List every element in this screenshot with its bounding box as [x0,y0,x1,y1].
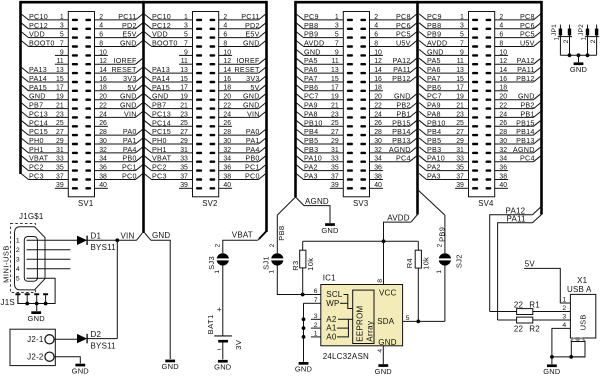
svg-text:AGND: AGND [513,145,535,154]
svg-text:PC10: PC10 [29,12,48,21]
svg-text:PC1: PC1 [245,163,260,172]
svg-text:WP: WP [326,299,339,308]
svg-text:SV4: SV4 [478,199,494,208]
svg-text:PB4: PB4 [427,127,441,136]
svg-text:PC12: PC12 [29,21,48,30]
svg-text:PC9: PC9 [427,12,442,21]
svg-text:PA6: PA6 [427,65,441,74]
svg-text:Array: Array [365,321,374,342]
svg-text:SV1: SV1 [78,199,93,208]
svg-text:PB3: PB3 [427,145,441,154]
svg-text:VIN: VIN [124,109,137,118]
svg-text:GND: GND [120,101,137,110]
svg-text:E5V: E5V [245,30,259,39]
svg-text:GND: GND [295,365,313,374]
svg-text:PC3: PC3 [152,172,167,181]
svg-text:PB6: PB6 [427,83,441,92]
svg-text:PB13: PB13 [516,136,535,145]
svg-text:PC0: PC0 [122,172,137,181]
svg-text:PA4: PA4 [123,145,137,154]
svg-text:PA8: PA8 [427,109,441,118]
svg-text:24LC32ASN: 24LC32ASN [323,352,369,361]
svg-text:2: 2 [314,322,318,329]
svg-text:5V: 5V [127,83,136,92]
svg-text:SCL: SCL [326,290,343,299]
svg-text:EEPROM: EEPROM [356,305,365,341]
svg-text:PA6: PA6 [304,65,318,74]
svg-text:GND: GND [243,39,260,48]
svg-text:PC6: PC6 [396,21,411,30]
svg-text:PC5: PC5 [520,30,535,39]
svg-text:PA2: PA2 [304,163,318,172]
svg-text:PB9: PB9 [304,30,318,39]
svg-text:E5V: E5V [122,30,136,39]
svg-text:PB1: PB1 [396,109,410,118]
svg-text:10k: 10k [306,258,315,271]
svg-text:PA12: PA12 [393,56,411,65]
svg-text:PC8: PC8 [396,12,411,21]
svg-text:PA5: PA5 [304,56,318,65]
svg-text:PC5: PC5 [396,30,411,39]
svg-text:3V3: 3V3 [246,74,260,83]
svg-text:PD2: PD2 [122,21,137,30]
svg-text:PB14: PB14 [516,127,535,136]
svg-text:PC1: PC1 [122,163,137,172]
svg-text:PA2: PA2 [427,163,441,172]
svg-text:PA0: PA0 [123,127,137,136]
svg-text:PB0: PB0 [245,154,259,163]
svg-text:+: + [217,305,222,314]
svg-text:BAT1: BAT1 [206,314,215,334]
svg-text:GND: GND [152,92,169,101]
svg-text:AGND: AGND [305,197,329,206]
svg-text:AGND: AGND [389,145,411,154]
svg-text:PC15: PC15 [29,127,48,136]
svg-text:VCC: VCC [379,289,397,298]
svg-text:PC0: PC0 [245,172,260,181]
svg-text:PB6: PB6 [304,83,318,92]
svg-text:3V: 3V [234,340,243,350]
svg-text:1: 1 [314,331,318,338]
svg-text:2: 2 [590,39,597,43]
svg-text:PA10: PA10 [427,154,445,163]
svg-text:PC6: PC6 [520,21,535,30]
svg-text:VBAT: VBAT [232,231,253,240]
svg-text:PB7: PB7 [152,101,166,110]
svg-text:GND: GND [375,367,393,376]
svg-text:2: 2 [16,247,20,254]
svg-text:PA3: PA3 [304,172,318,181]
svg-text:R4: R4 [405,258,414,268]
svg-text:GND: GND [120,39,137,48]
svg-text:PB2: PB2 [396,101,410,110]
svg-text:PD2: PD2 [245,21,260,30]
svg-text:GND: GND [543,367,561,376]
svg-text:PA11: PA11 [507,214,527,223]
svg-text:PB8: PB8 [427,21,441,30]
svg-text:22: 22 [514,300,524,309]
svg-text:8: 8 [377,279,384,283]
svg-text:1: 1 [16,238,20,245]
svg-text:BOOT0: BOOT0 [152,39,178,48]
svg-text:PB3: PB3 [304,145,318,154]
svg-text:D1: D1 [91,232,102,241]
svg-text:1: 1 [436,270,443,274]
svg-text:PA1: PA1 [123,136,137,145]
svg-text:D2: D2 [91,330,102,339]
svg-text:GND: GND [214,363,232,372]
svg-text:4: 4 [16,266,20,273]
svg-text:3: 3 [314,313,318,320]
svg-text:JP1: JP1 [551,24,558,36]
svg-text:GND: GND [72,366,90,375]
svg-text:SV2: SV2 [202,199,217,208]
svg-text:PC3: PC3 [29,172,44,181]
svg-text:R1: R1 [529,300,540,309]
svg-text:PB15: PB15 [516,118,535,127]
svg-text:IC1: IC1 [323,274,336,283]
svg-text:U5V: U5V [396,39,411,48]
svg-text:PB2: PB2 [520,101,534,110]
svg-text:2: 2 [437,243,444,247]
svg-text:PC4: PC4 [520,154,535,163]
svg-text:PC15: PC15 [152,127,171,136]
svg-text:5V: 5V [250,83,259,92]
svg-text:6: 6 [314,288,318,295]
svg-text:PB13: PB13 [392,136,411,145]
svg-text:PA1: PA1 [246,136,260,145]
svg-text:PB0: PB0 [122,154,136,163]
svg-text:IOREF: IOREF [236,56,260,65]
svg-text:R3: R3 [291,261,300,271]
svg-text:5: 5 [16,276,20,283]
svg-text:PA15: PA15 [29,83,47,92]
svg-text:3V3: 3V3 [123,74,137,83]
svg-text:PA4: PA4 [246,145,260,154]
svg-text:AVDD: AVDD [304,39,324,48]
svg-text:PB9: PB9 [437,227,446,242]
svg-text:PB7: PB7 [29,101,43,110]
svg-text:AVDD: AVDD [387,214,409,223]
svg-text:PH1: PH1 [152,145,167,154]
svg-text:GND: GND [162,362,180,371]
svg-text:RESET: RESET [234,65,260,74]
svg-text:PA9: PA9 [304,101,318,110]
svg-text:−: − [217,345,222,354]
svg-text:PA15: PA15 [152,83,170,92]
svg-text:PB9: PB9 [427,30,441,39]
svg-text:PA13: PA13 [29,65,47,74]
svg-text:GND: GND [570,65,588,74]
svg-text:PC2: PC2 [29,163,44,172]
svg-text:U5V: U5V [520,39,535,48]
svg-text:BOOT0: BOOT0 [29,39,55,48]
svg-text:PC11: PC11 [241,12,259,21]
svg-text:PC11: PC11 [118,12,136,21]
svg-text:PH0: PH0 [152,136,167,145]
svg-text:2: 2 [563,39,570,43]
svg-text:VDD: VDD [29,30,45,39]
svg-text:PA13: PA13 [152,65,170,74]
svg-text:X1: X1 [577,276,588,285]
svg-text:PB15: PB15 [392,118,411,127]
svg-text:5V: 5V [525,259,536,268]
svg-text:GND: GND [152,231,170,240]
svg-text:GND: GND [518,92,535,101]
svg-text:PB10: PB10 [304,118,323,127]
svg-text:A1: A1 [326,324,337,333]
svg-text:PC2: PC2 [152,163,167,172]
svg-text:RESET: RESET [111,65,137,74]
svg-text:PC12: PC12 [152,21,171,30]
svg-text:PB1: PB1 [520,109,534,118]
svg-text:PA5: PA5 [427,56,441,65]
svg-text:BYS11: BYS11 [91,341,117,350]
svg-text:PB12: PB12 [392,74,411,83]
svg-text:PB5: PB5 [304,136,318,145]
svg-text:GND: GND [29,92,46,101]
svg-text:PB10: PB10 [427,118,446,127]
svg-text:PA3: PA3 [427,172,441,181]
svg-text:2: 2 [215,243,222,247]
svg-text:PH0: PH0 [29,136,44,145]
svg-text:SJ2: SJ2 [455,254,464,268]
svg-text:SDA: SDA [377,317,395,326]
svg-text:PC10: PC10 [152,12,171,21]
svg-text:PA11: PA11 [393,65,411,74]
svg-text:PA10: PA10 [304,154,322,163]
svg-text:PA7: PA7 [427,74,441,83]
svg-text:4: 4 [377,349,384,353]
svg-text:GND: GND [243,92,260,101]
svg-text:IOREF: IOREF [113,56,137,65]
svg-text:PA0: PA0 [246,127,260,136]
svg-text:USB A: USB A [567,285,592,294]
svg-text:PC13: PC13 [152,109,171,118]
svg-text:MINI-USB: MINI-USB [2,245,11,283]
svg-text:PA7: PA7 [304,74,318,83]
svg-text:PB14: PB14 [392,127,411,136]
svg-text:USB: USB [579,315,588,331]
svg-text:GND: GND [427,47,444,56]
svg-text:PB12: PB12 [516,74,535,83]
svg-text:PC14: PC14 [152,118,171,127]
svg-text:J2-2: J2-2 [27,352,44,361]
svg-text:JP2: JP2 [578,24,585,36]
svg-text:PB8: PB8 [304,21,318,30]
svg-text:PB5: PB5 [427,136,441,145]
svg-text:VIN: VIN [121,231,135,240]
svg-text:3: 3 [16,257,20,264]
svg-text:GND: GND [378,338,396,347]
svg-text:VIN: VIN [247,109,260,118]
svg-text:PA12: PA12 [517,56,535,65]
svg-text:PC13: PC13 [29,109,48,118]
svg-text:PH1: PH1 [29,145,44,154]
svg-text:GND: GND [28,314,46,323]
svg-text:7: 7 [314,297,318,304]
svg-text:PC14: PC14 [29,118,48,127]
svg-text:A2: A2 [326,315,337,324]
svg-text:J1S: J1S [1,298,15,307]
svg-text:PC9: PC9 [304,12,319,21]
svg-text:PA8: PA8 [304,109,318,118]
svg-text:GND: GND [304,47,321,56]
svg-text:2: 2 [269,243,276,247]
svg-text:VDD: VDD [152,30,168,39]
svg-text:PB8: PB8 [277,226,286,241]
svg-text:PA9: PA9 [427,101,441,110]
svg-text:PC7: PC7 [304,92,319,101]
svg-text:VBAT: VBAT [152,154,172,163]
svg-text:J2-1: J2-1 [27,335,44,344]
svg-text:GND: GND [394,92,411,101]
svg-text:PA14: PA14 [152,74,170,83]
svg-text:GND: GND [321,226,339,235]
svg-text:GND: GND [120,92,137,101]
svg-text:PA14: PA14 [29,74,47,83]
svg-text:10k: 10k [422,257,431,270]
svg-text:AVDD: AVDD [427,39,447,48]
svg-text:GND: GND [243,101,260,110]
svg-text:BYS11: BYS11 [91,243,117,252]
svg-text:22: 22 [514,325,524,334]
svg-text:VBAT: VBAT [29,154,49,163]
svg-text:PA11: PA11 [517,65,535,74]
svg-text:J1G$1: J1G$1 [19,212,44,221]
svg-text:5: 5 [406,315,410,322]
svg-text:A0: A0 [326,333,337,342]
svg-text:PC4: PC4 [396,154,411,163]
svg-text:SJ3: SJ3 [207,256,216,270]
svg-text:SV3: SV3 [353,199,368,208]
svg-text:R2: R2 [529,325,540,334]
svg-text:SJ1: SJ1 [261,256,270,270]
svg-text:PC7: PC7 [427,92,442,101]
svg-text:PC8: PC8 [520,12,535,21]
svg-text:PB4: PB4 [304,127,318,136]
